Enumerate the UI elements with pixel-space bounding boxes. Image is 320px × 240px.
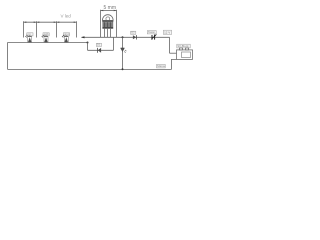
svg-text:9V-Block: 9V-Block [178, 44, 190, 48]
label D2 [131, 30, 136, 34]
wire left drop [7, 43, 9, 70]
LED D_L1 [25, 35, 31, 43]
LED D_L2 [42, 35, 48, 43]
wire battery minus [172, 59, 177, 69]
LED pictorial die [106, 17, 110, 21]
wire right drop [169, 37, 171, 53]
label D1 [96, 43, 101, 47]
label switch S1 [147, 30, 156, 34]
svg-text:D1: D1 [97, 43, 101, 47]
svg-text:Taster: Taster [148, 30, 155, 34]
battery BT1 body [177, 50, 193, 60]
node junction main [122, 36, 124, 38]
dimension line 5mm [101, 10, 117, 12]
LED pictorial leg 2 [107, 29, 109, 38]
wire riser [113, 37, 115, 50]
label LED1 [27, 32, 33, 36]
dimension tick T2 [36, 21, 38, 37]
LED pictorial flange [102, 20, 113, 22]
LED D_L3 [62, 35, 68, 43]
dimension line top [24, 21, 77, 23]
diode D3 [121, 48, 127, 53]
diode D1 [97, 48, 101, 53]
label battery [177, 44, 190, 48]
svg-text:grun: grun [64, 32, 70, 36]
dimension tick left 5mm [100, 10, 102, 38]
battery BT1 terminal 1 [180, 48, 183, 50]
node rail junction [122, 68, 124, 70]
node bus corner [87, 42, 89, 44]
dimension tick right 5mm [116, 10, 118, 38]
label rail [157, 64, 166, 68]
arrowhead current [81, 36, 85, 38]
diode D2 [133, 35, 137, 39]
wire bottom rail [8, 68, 172, 70]
svg-text:D2: D2 [131, 30, 135, 34]
wire lower middle [88, 49, 114, 51]
LED pictorial dome [103, 15, 114, 26]
LED pictorial leg 1 [104, 29, 106, 38]
svg-text:gelb: gelb [44, 32, 49, 36]
label LED3 [63, 32, 69, 36]
switch S1 [151, 34, 156, 39]
battery BT1 seam [182, 52, 191, 58]
wire bus corner drop [87, 43, 89, 51]
wire zener branch [122, 37, 124, 69]
wire bus top [8, 42, 88, 44]
label 9V [163, 30, 171, 34]
dimension arrowheads segment 2 [37, 21, 57, 23]
svg-text:12 V: 12 V [164, 31, 170, 35]
dimension tick T1 [23, 21, 25, 37]
wire to battery plus [170, 52, 177, 54]
dimension tick T4 [76, 21, 78, 37]
label LED2 [43, 32, 49, 36]
battery BT1 terminal 2 [186, 48, 189, 50]
svg-text:Masse: Masse [157, 64, 166, 68]
LED pictorial body [102, 22, 113, 27]
svg-text:5 mm: 5 mm [104, 5, 117, 11]
dimension arrowheads segment 3 [57, 21, 77, 23]
wire main horizontal [82, 36, 170, 38]
LED pictorial body hatch [105, 22, 111, 27]
svg-text:V led: V led [61, 14, 72, 19]
dimension arrowheads 5mm [101, 10, 117, 12]
svg-text:rot: rot [28, 32, 31, 36]
dimension tick T3 [56, 21, 58, 37]
LED pictorial base bar [102, 27, 113, 29]
LED pictorial leg 3 [110, 29, 112, 38]
dimension arrowheads segment 1 [24, 21, 37, 23]
